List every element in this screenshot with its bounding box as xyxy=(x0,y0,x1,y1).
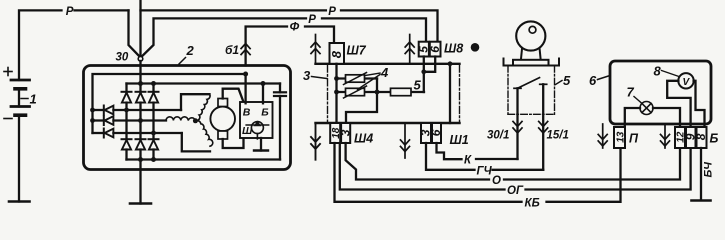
svg-text:Б: Б xyxy=(710,132,719,146)
battery 1 minus sign xyxy=(4,118,12,120)
arrow to other consumers (on 61 wire) xyxy=(241,44,250,55)
label 3 leader xyxy=(312,77,328,79)
junction dot (row2 phase2) xyxy=(138,118,143,123)
switch contact blade xyxy=(518,78,540,89)
wire Sh7 pin to fuse feed xyxy=(335,64,337,123)
wire plus rail xyxy=(127,82,281,84)
fuse box 3 boundary (dash-dot) xyxy=(328,65,460,122)
arrow to other consumers (below block) xyxy=(401,123,410,158)
fuse box 3 top bus xyxy=(316,63,460,65)
ground (regulator) xyxy=(254,149,268,151)
junction dot xyxy=(151,157,156,162)
wire aux rail (node D+) xyxy=(93,74,246,133)
junction dot xyxy=(90,118,95,123)
generator 2 case xyxy=(84,66,291,170)
wire Sh8 pin6 down xyxy=(424,57,435,72)
connector Sh8 box pin6 xyxy=(430,42,441,57)
ground (generator) xyxy=(130,202,151,205)
terminal 30 circle xyxy=(138,57,143,62)
wire generator case ground xyxy=(139,160,141,204)
wire F from terminal 61 xyxy=(246,27,287,66)
wire OG from Sh4-18b xyxy=(340,143,505,190)
connector Sh4 box pin3 xyxy=(341,123,350,143)
ignition key hole xyxy=(529,26,536,33)
wire fuse output to Sh4-3 xyxy=(346,79,377,124)
wire GCh continues to ignition 15/1 xyxy=(493,169,544,171)
svg-text:б1: б1 xyxy=(225,43,239,57)
svg-text:P: P xyxy=(66,6,74,18)
wire F continues to Sh7 xyxy=(305,27,334,44)
svg-text:Φ: Φ xyxy=(290,20,300,34)
wire lamp left to connector 13 xyxy=(625,108,640,127)
svg-text:Ш4: Ш4 xyxy=(354,132,373,146)
wire KB continues to panel 13 xyxy=(547,148,621,202)
junction dot xyxy=(138,81,143,86)
wire bottom brush to regulator Sh xyxy=(223,138,244,148)
aux diode VD8 (row2) xyxy=(93,116,167,125)
wire A continues (P label break) xyxy=(141,9,326,11)
wire battery negative to ground xyxy=(18,115,20,201)
svg-text:О: О xyxy=(492,175,501,187)
voltmeter 8 circle xyxy=(678,73,693,88)
junction dot (fuse2 feed) xyxy=(334,90,339,95)
label 4 leaders xyxy=(358,73,381,90)
svg-text:К: К xyxy=(464,155,472,167)
wire GCh from Sh1-3 xyxy=(426,143,475,170)
wire 30/1 down to K xyxy=(516,88,518,159)
connector Sh1 box pin3 xyxy=(421,123,431,143)
ground (panel) xyxy=(692,199,711,202)
ignition key collar xyxy=(513,60,549,66)
wire between cells xyxy=(18,89,20,107)
connector Sh8 box pin5 xyxy=(419,42,429,57)
wire from top edge to terminal 30 xyxy=(139,0,141,57)
svg-text:Ш7: Ш7 xyxy=(347,44,367,58)
connector box 12 xyxy=(675,127,685,148)
junction dot (fuse line cross) xyxy=(375,90,380,95)
junction dot xyxy=(138,157,143,162)
wire fuse2/fuse5 through-line xyxy=(337,91,425,93)
ground (battery) xyxy=(9,200,30,203)
junction bullet xyxy=(471,43,480,52)
stator winding lower phase xyxy=(182,121,213,152)
arrow other consumers (panel mid) xyxy=(661,124,670,148)
diode VD1 (top, phase1) xyxy=(122,84,132,140)
battery 1 cell2 long plate xyxy=(11,105,30,108)
wire terminal 30 into bridge xyxy=(139,61,141,84)
wire OG continues to panel 9 xyxy=(526,148,691,190)
brush (top) xyxy=(218,99,228,107)
wire xyxy=(75,9,129,11)
svg-text:1: 1 xyxy=(30,92,37,107)
svg-text:5: 5 xyxy=(563,73,571,88)
svg-text:5: 5 xyxy=(414,78,422,93)
svg-text:2: 2 xyxy=(186,43,195,58)
rotor field winding circle xyxy=(210,107,235,132)
junction dot (V/aux rail) xyxy=(243,72,248,77)
svg-text:3: 3 xyxy=(338,129,352,136)
svg-text:B: B xyxy=(243,107,251,119)
svg-text:6: 6 xyxy=(589,73,597,88)
svg-text:13: 13 xyxy=(615,131,626,143)
arrow other consumers (panel left) xyxy=(598,124,607,148)
junction dot (row3 phase3) xyxy=(151,131,156,136)
fuse box 3 bottom bus xyxy=(316,122,460,124)
wire capacitor to minus rail xyxy=(279,96,281,160)
wire top brush to regulator V xyxy=(223,89,244,104)
svg-text:ОГ: ОГ xyxy=(507,185,524,197)
wire minus rail xyxy=(127,158,281,160)
ignition switch 5 top bar xyxy=(504,59,560,66)
arrow other consumers (30/1) xyxy=(513,122,522,134)
svg-text:Б: Б xyxy=(261,107,269,119)
arrow to other consumers (left of Sh8) xyxy=(405,35,414,64)
connector Sh7 box xyxy=(330,43,345,64)
svg-text:8: 8 xyxy=(694,133,708,140)
svg-text:P: P xyxy=(328,6,336,18)
wire Sh8 pin5 down xyxy=(423,57,425,93)
junction dot (bus/right vertical) xyxy=(448,61,453,66)
brush (bottom) xyxy=(218,131,228,139)
junction dot xyxy=(90,108,95,113)
svg-text:8: 8 xyxy=(329,50,344,58)
wire B continues to connector Sh8 pin5 xyxy=(322,18,426,41)
battery 1 cell1 short plate xyxy=(15,87,26,91)
svg-text:P: P xyxy=(308,14,316,26)
junction dot xyxy=(261,81,266,86)
battery 1 plus sign xyxy=(4,68,12,76)
voltage regulator box xyxy=(240,102,273,138)
svg-text:7: 7 xyxy=(627,85,635,100)
wire voltmeter right to connector 8 xyxy=(694,81,705,127)
wire regulator ground xyxy=(260,138,262,151)
circuit breaker 4a body xyxy=(346,75,365,82)
junction dot xyxy=(151,81,156,86)
circuit breaker 4a diagonal xyxy=(344,73,367,85)
wire K from Sh1-6 xyxy=(437,143,462,159)
wire plus rail to capacitor xyxy=(279,84,281,93)
junction dot (row1 phase1) xyxy=(124,108,129,113)
connector Sh1 box pin6 xyxy=(432,123,441,143)
fuse 5 body xyxy=(391,88,412,95)
connector box 13 xyxy=(614,127,625,148)
diode VD4 (bottom, phase1) xyxy=(122,139,132,159)
wire fuse1 through-line xyxy=(337,77,378,79)
svg-text:3: 3 xyxy=(303,68,311,83)
wire A drop to terminal 30 funnel xyxy=(129,10,140,56)
capacitor plate top xyxy=(274,91,286,93)
charge lamp 7 xyxy=(640,102,653,115)
instrument panel 6 case xyxy=(610,61,711,124)
junction dot (Sh8 merge) xyxy=(421,69,426,74)
svg-text:БЧ: БЧ xyxy=(703,162,715,178)
arrow to other consumers (below block left) xyxy=(311,123,320,160)
aux diode VD7 (row1) xyxy=(93,106,182,115)
svg-text:6: 6 xyxy=(429,129,443,136)
diode VD6 (bottom, phase3) xyxy=(149,139,159,159)
wire A continues to connector Sh8 pin6 xyxy=(341,10,438,41)
aux diode VD9 (row3) xyxy=(93,129,182,138)
wire plus rail to regulator B pin xyxy=(262,84,264,104)
wire inner right vertical xyxy=(449,64,451,123)
label 7 leader xyxy=(634,97,642,104)
wire 15/1 down to GCh xyxy=(542,84,544,170)
circuit breaker 4b body xyxy=(346,88,365,95)
arrow other consumers (15/1) xyxy=(539,122,548,134)
diode VD5 (bottom, phase2) xyxy=(136,139,146,159)
svg-text:Ш8: Ш8 xyxy=(444,42,463,56)
stator star point node xyxy=(193,118,198,123)
regulator element symbol xyxy=(246,121,268,139)
svg-text:4: 4 xyxy=(380,65,389,80)
wire BCh connector 8 to ground xyxy=(700,148,702,200)
svg-text:6: 6 xyxy=(428,46,442,53)
junction dot (fuse1 feed) xyxy=(334,76,339,81)
capacitor plate bottom xyxy=(274,95,286,97)
svg-text:КБ: КБ xyxy=(525,197,540,209)
battery 1 cell1 long plate xyxy=(11,79,30,82)
wire O from Sh4-3 xyxy=(346,143,489,180)
diode VD3 (top, phase3) xyxy=(149,84,159,140)
svg-text:15/1: 15/1 xyxy=(547,130,569,142)
ignition key neck xyxy=(521,49,541,60)
battery 1 cell2 short plate xyxy=(15,113,26,117)
ignition key head xyxy=(516,21,545,50)
stator winding middle phase xyxy=(166,117,195,121)
svg-text:П: П xyxy=(629,132,639,146)
wire K continues to ignition 30/1 xyxy=(476,158,518,160)
wire O continues to panel 12 xyxy=(504,148,680,180)
label 1 leader xyxy=(21,98,28,100)
wire KB from Sh4-18 xyxy=(335,143,522,202)
wire B (second P wire) from funnel xyxy=(142,18,306,56)
connector Sh4 box pin18 xyxy=(330,123,340,143)
switch contact pins xyxy=(514,84,547,88)
connector box 9 xyxy=(686,127,696,148)
wire battery positive to P bus xyxy=(19,10,62,80)
diode VD2 (top, phase2) xyxy=(136,84,146,140)
label 5 leader xyxy=(556,81,563,85)
wire lamp right to connector 12 xyxy=(653,108,680,127)
svg-text:ГЧ: ГЧ xyxy=(477,165,493,177)
wire voltmeter left to connector 9 xyxy=(667,81,690,127)
label 6 leader xyxy=(598,76,609,80)
label 2 leader xyxy=(179,58,186,65)
stator winding upper phase xyxy=(181,94,210,120)
ignition switch 5 boundary (dash-dot) xyxy=(508,66,555,115)
svg-text:30: 30 xyxy=(116,52,129,64)
arrow to other consumers (left of Sh7) xyxy=(311,35,320,64)
wire 61 to regulator V pin xyxy=(244,74,246,103)
label 8 leader xyxy=(662,71,680,77)
connector box 8 xyxy=(697,127,707,148)
svg-text:Ш1: Ш1 xyxy=(450,133,469,147)
circuit breaker 4b diagonal xyxy=(344,86,367,98)
svg-text:30/1: 30/1 xyxy=(487,130,509,142)
svg-text:8: 8 xyxy=(654,64,662,79)
